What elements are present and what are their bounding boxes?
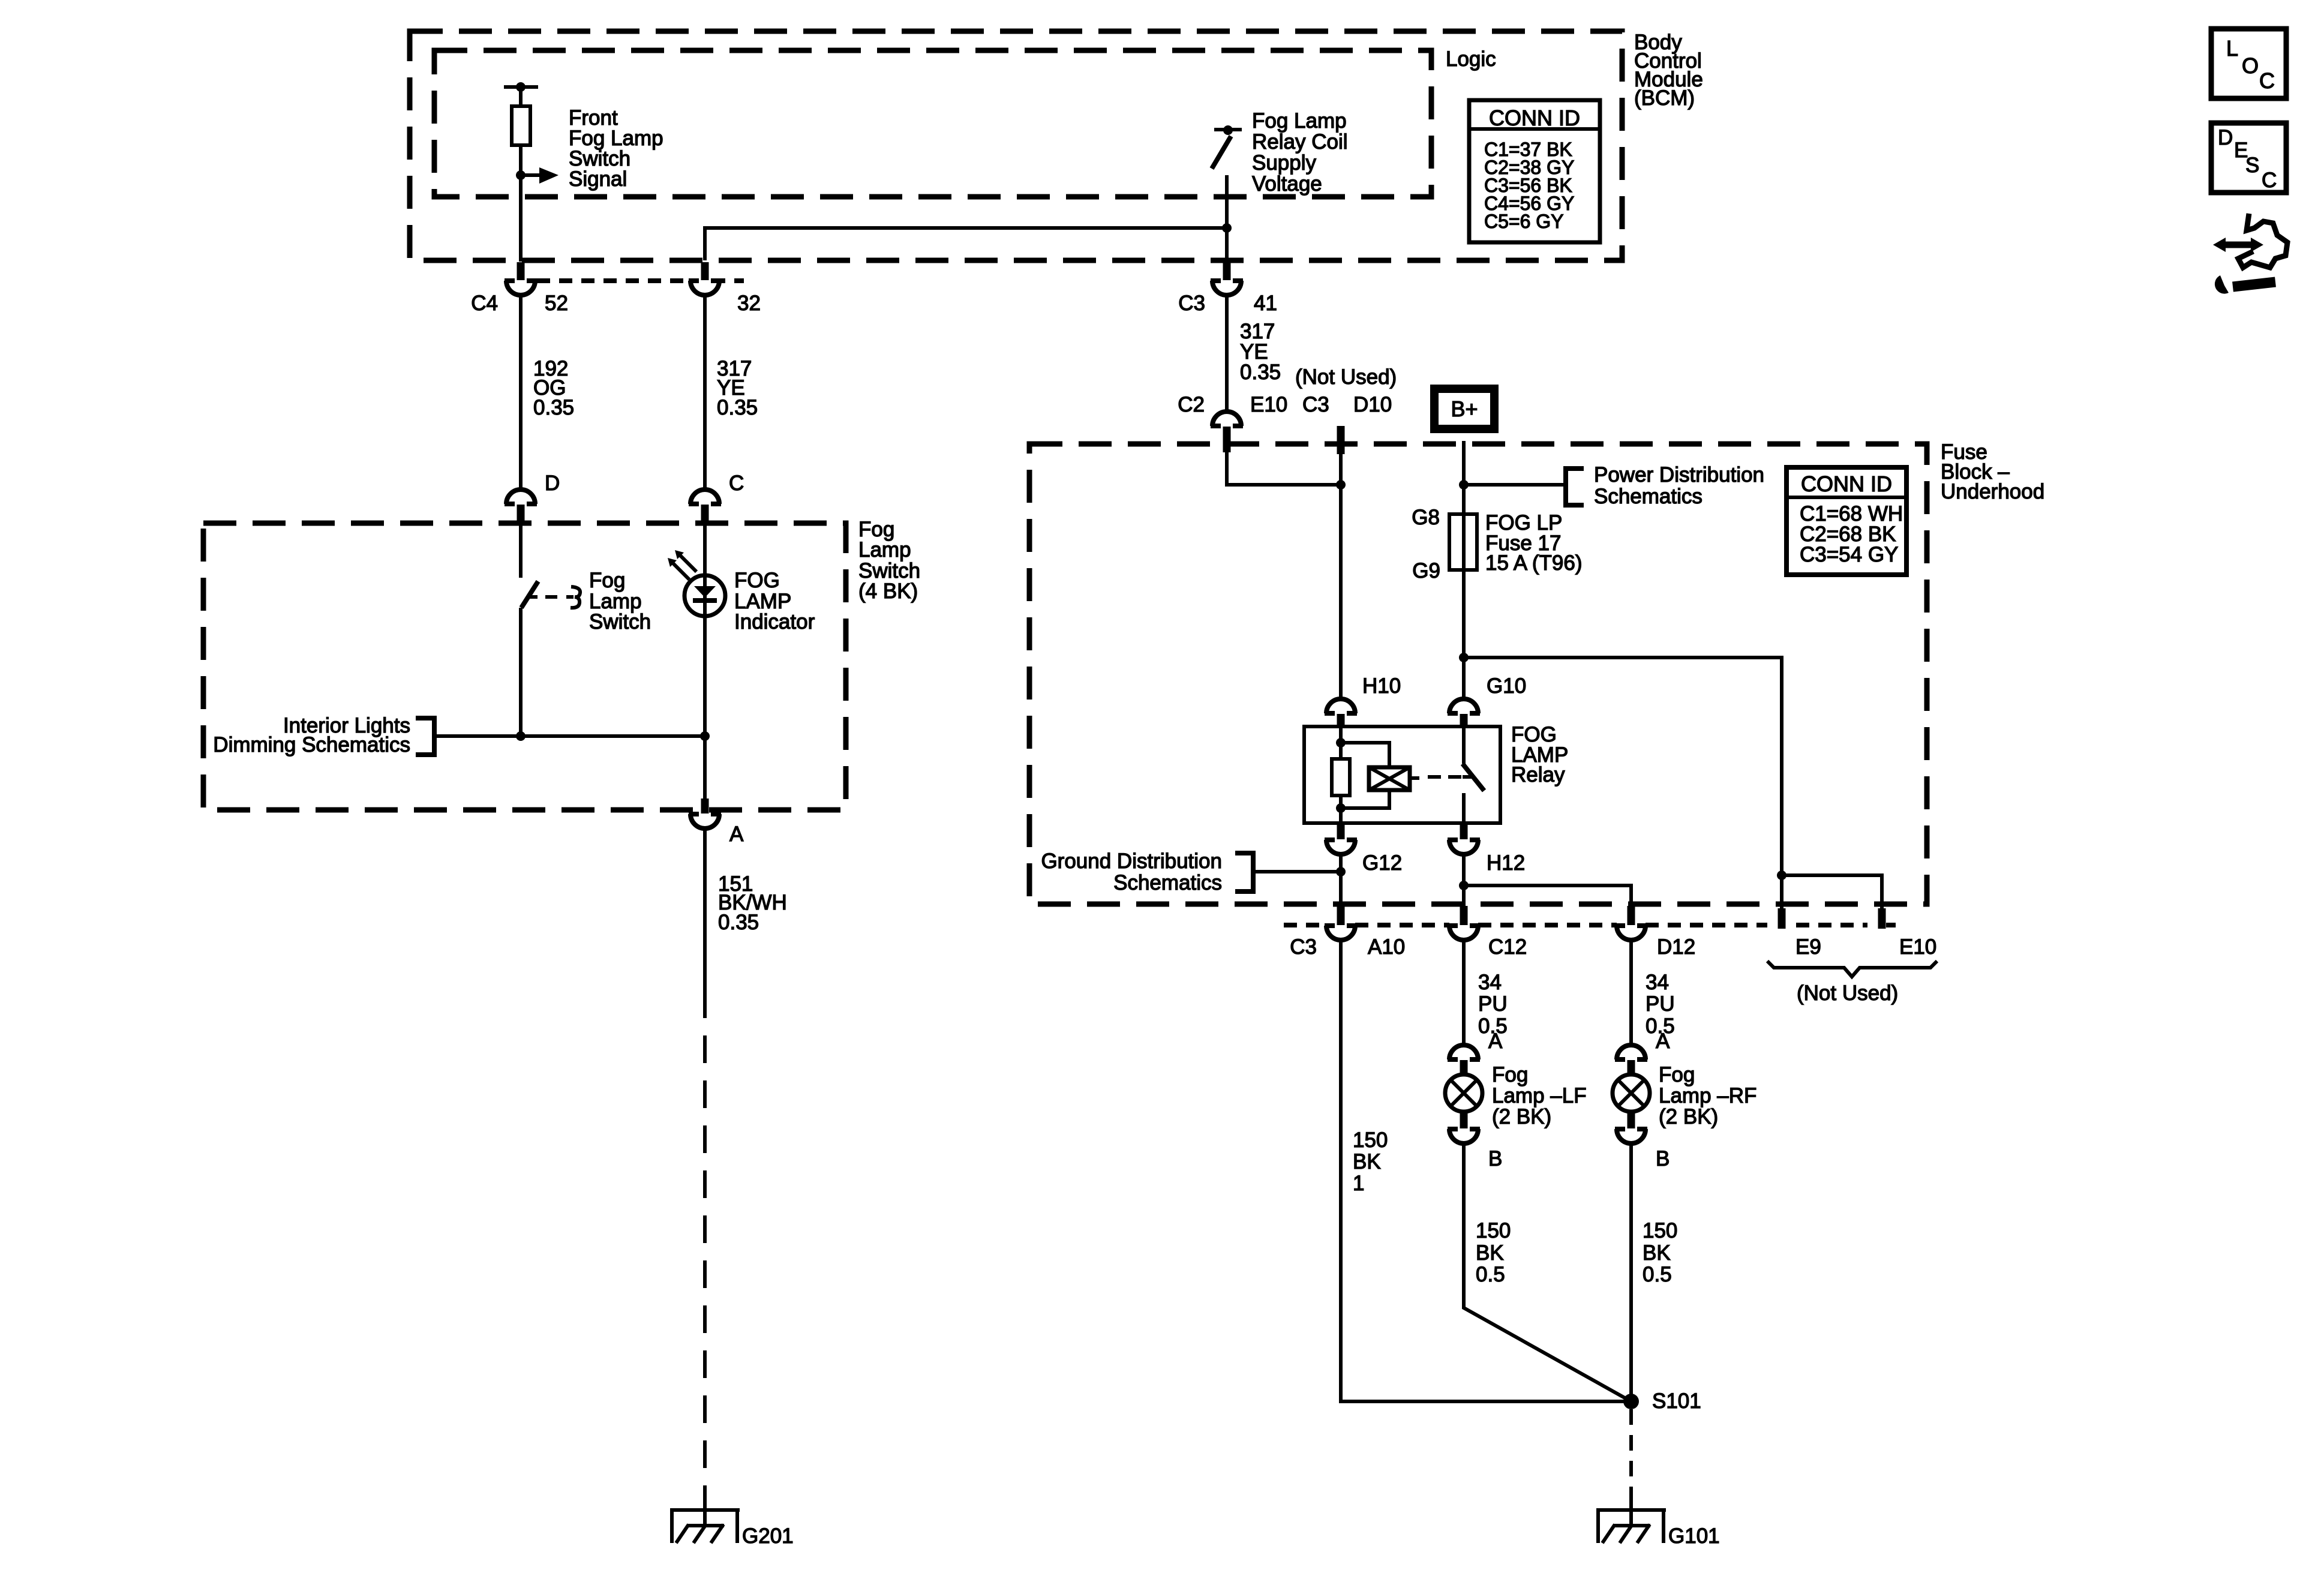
svg-text:C3: C3 [1290, 935, 1317, 959]
svg-text:CONN ID: CONN ID [1489, 106, 1580, 130]
svg-text:Lamp –LF: Lamp –LF [1492, 1084, 1587, 1107]
svg-text:G9: G9 [1412, 559, 1440, 583]
svg-text:D12: D12 [1657, 935, 1695, 959]
svg-text:52: 52 [545, 292, 568, 315]
svg-text:(2 BK): (2 BK) [1492, 1105, 1551, 1128]
svg-text:C3: C3 [1178, 292, 1205, 315]
svg-text:E9: E9 [1795, 935, 1821, 959]
svg-text:C: C [2262, 169, 2277, 192]
svg-text:E10: E10 [1899, 935, 1936, 959]
svg-text:Underhood: Underhood [1941, 480, 2044, 503]
svg-text:Relay Coil: Relay Coil [1252, 130, 1348, 154]
svg-text:Lamp: Lamp [858, 538, 911, 562]
svg-text:Fog Lamp: Fog Lamp [1252, 109, 1347, 133]
svg-text:PU: PU [1646, 992, 1675, 1016]
svg-text:BK: BK [1476, 1241, 1504, 1265]
svg-text:34: 34 [1646, 971, 1669, 994]
svg-text:A10: A10 [1368, 935, 1405, 959]
svg-text:Lamp –RF: Lamp –RF [1659, 1084, 1756, 1107]
svg-text:CONN ID: CONN ID [1801, 472, 1892, 496]
svg-text:H10: H10 [1362, 674, 1401, 698]
svg-text:E10: E10 [1250, 393, 1287, 416]
svg-text:41: 41 [1254, 292, 1277, 315]
svg-text:0.35: 0.35 [717, 396, 758, 419]
svg-text:D: D [545, 472, 560, 495]
svg-text:(BCM): (BCM) [1634, 86, 1695, 110]
svg-text:0.5: 0.5 [1476, 1263, 1505, 1286]
svg-text:C3=54 GY: C3=54 GY [1800, 543, 1898, 566]
svg-text:150: 150 [1643, 1219, 1677, 1242]
svg-text:G8: G8 [1412, 506, 1440, 529]
svg-text:0.35: 0.35 [533, 396, 574, 419]
svg-text:A: A [1656, 1029, 1670, 1053]
svg-text:(Not Used): (Not Used) [1797, 981, 1898, 1005]
svg-text:Relay: Relay [1511, 763, 1565, 786]
svg-text:Signal: Signal [569, 167, 627, 191]
svg-text:0.35: 0.35 [718, 911, 759, 934]
svg-text:C4: C4 [471, 292, 498, 315]
svg-text:0.35: 0.35 [1240, 361, 1281, 384]
svg-text:C: C [2259, 68, 2275, 93]
svg-text:FOG: FOG [734, 569, 780, 592]
svg-text:Indicator: Indicator [734, 610, 815, 634]
svg-text:Fog: Fog [589, 569, 625, 592]
svg-text:Voltage: Voltage [1252, 172, 1322, 196]
svg-text:Supply: Supply [1252, 151, 1317, 175]
svg-text:Power Distribution: Power Distribution [1594, 463, 1764, 487]
svg-text:B: B [1656, 1147, 1670, 1170]
svg-text:Fog: Fog [1659, 1063, 1695, 1086]
svg-text:G201: G201 [742, 1524, 794, 1548]
svg-text:D: D [2218, 126, 2233, 149]
svg-text:C12: C12 [1488, 935, 1527, 959]
svg-text:A: A [729, 822, 744, 846]
svg-text:B: B [1488, 1147, 1502, 1170]
svg-text:H12: H12 [1487, 851, 1525, 875]
svg-text:S101: S101 [1652, 1389, 1701, 1413]
svg-text:150: 150 [1476, 1219, 1511, 1242]
svg-text:0.5: 0.5 [1643, 1263, 1672, 1286]
svg-text:C2: C2 [1178, 393, 1205, 416]
svg-text:Ground Distribution: Ground Distribution [1041, 849, 1222, 873]
svg-text:BK: BK [1643, 1241, 1671, 1265]
svg-text:BK: BK [1353, 1150, 1381, 1173]
svg-text:PU: PU [1478, 992, 1508, 1016]
svg-text:B+: B+ [1451, 397, 1478, 421]
svg-text:G101: G101 [1668, 1524, 1720, 1548]
svg-text:C5=6 GY: C5=6 GY [1484, 211, 1564, 232]
svg-text:Logic: Logic [1446, 47, 1496, 71]
svg-text:Schematics: Schematics [1113, 871, 1222, 894]
svg-text:Switch: Switch [589, 610, 651, 634]
svg-text:(4 BK): (4 BK) [858, 580, 918, 603]
svg-text:D10: D10 [1353, 393, 1392, 416]
svg-text:Dimming Schematics: Dimming Schematics [213, 733, 410, 757]
svg-text:(2 BK): (2 BK) [1659, 1105, 1718, 1128]
svg-text:C: C [729, 472, 744, 495]
svg-text:(Not Used): (Not Used) [1295, 365, 1397, 389]
svg-text:A: A [1488, 1029, 1503, 1053]
svg-text:32: 32 [737, 292, 761, 315]
svg-text:G10: G10 [1487, 674, 1526, 698]
svg-text:O: O [2242, 53, 2259, 78]
svg-text:34: 34 [1478, 971, 1502, 994]
svg-text:C3: C3 [1302, 393, 1329, 416]
svg-text:150: 150 [1353, 1128, 1388, 1152]
svg-text:L: L [2226, 36, 2238, 61]
svg-text:15 A (T96): 15 A (T96) [1485, 551, 1582, 575]
svg-text:Fog: Fog [1492, 1063, 1528, 1086]
svg-text:S: S [2245, 154, 2259, 177]
svg-text:Schematics: Schematics [1594, 485, 1703, 508]
svg-text:G12: G12 [1362, 851, 1402, 875]
svg-text:1: 1 [1353, 1172, 1364, 1195]
